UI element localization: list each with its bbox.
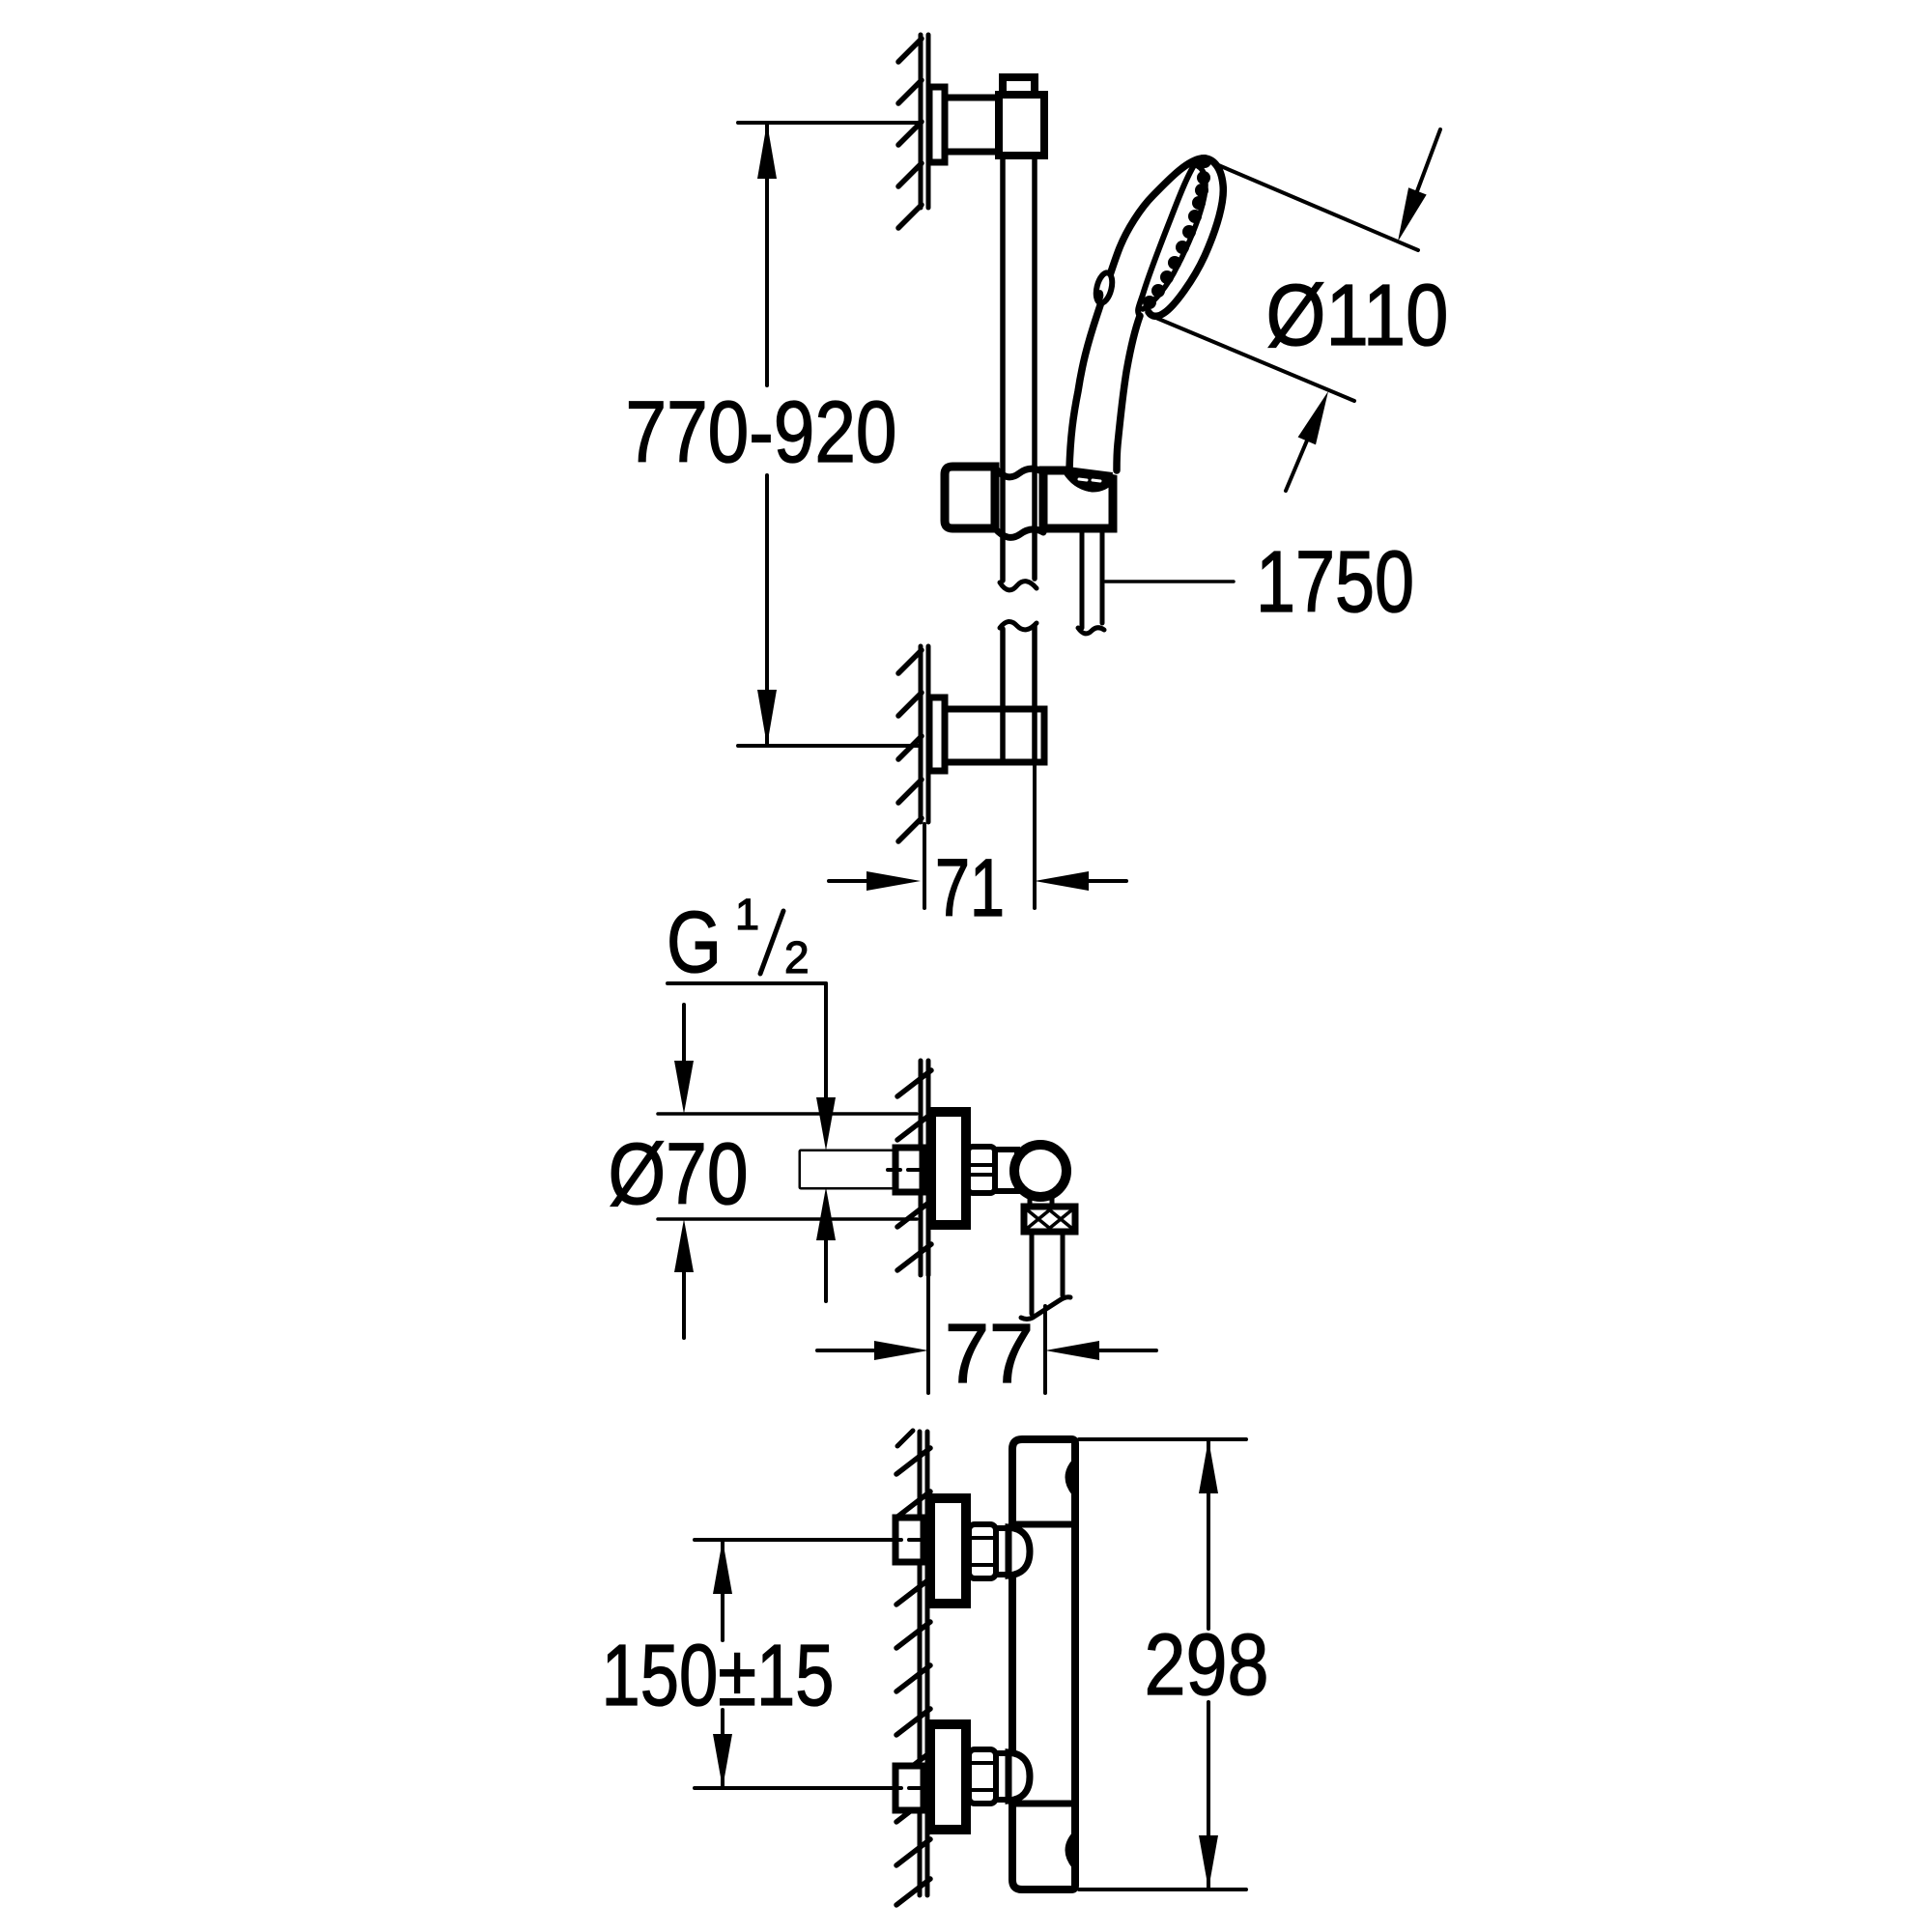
top bracket flange (929, 87, 945, 162)
holder right block (1043, 470, 1113, 528)
svg-text:Ø110: Ø110 (1266, 268, 1449, 364)
svg-text:1: 1 (735, 890, 759, 939)
dimension 298 extension lines (1079, 1439, 1246, 1889)
svg-text:Ø70: Ø70 (609, 1126, 749, 1223)
dimension 77 arrows (817, 1341, 1156, 1360)
hose coupling knurled nut (1024, 1207, 1075, 1232)
dimension 298 line with arrows (1199, 1439, 1218, 1889)
hex nut upper (front) (969, 1524, 996, 1578)
svg-text:1750: 1750 (1256, 534, 1414, 631)
dashed centerline lower inlet (889, 1786, 927, 1790)
washer lower (996, 1753, 1010, 1800)
wall middle hatching (897, 1070, 931, 1270)
union square nut upper (front) (895, 1518, 923, 1562)
thermostat body (1012, 1439, 1075, 1889)
svg-text:298: 298 (1145, 1617, 1269, 1714)
wall top (shower rail upper mount) (921, 35, 928, 208)
escutcheon (middle, side view) (931, 1112, 966, 1225)
top bracket arm (945, 98, 1002, 152)
rail top cap button (1003, 77, 1035, 95)
svg-text:150±15: 150±15 (602, 1628, 835, 1724)
dimension Ø70 arrows (674, 1005, 694, 1338)
dimension Ø110 upper arrow (1398, 129, 1440, 241)
wall middle (921, 1061, 928, 1275)
hand shower spray nozzles (dots) (1143, 155, 1211, 309)
dome cap upper (S-union) (1009, 1527, 1030, 1576)
dimension 770-920 bottom extension line (738, 744, 918, 748)
svg-text:770-920: 770-920 (626, 384, 897, 481)
knob neck (1030, 1196, 1052, 1207)
hose (middle) with break (1021, 1232, 1070, 1320)
dimension 77 extension lines (928, 1277, 1045, 1393)
G 1/2 arrow down to pipe (816, 1097, 836, 1151)
svg-text:2: 2 (784, 932, 810, 982)
dimension Ø110 lower tangent line (1151, 316, 1354, 401)
dimension 770-920 top extension line (738, 121, 918, 125)
holder wavy cut over rail (995, 468, 1043, 537)
dimension Ø110 upper tangent line (1209, 161, 1418, 250)
rail top cap (999, 95, 1044, 156)
dimension 150±15 extension lines (695, 1540, 895, 1788)
escutcheon lower (front) (930, 1724, 966, 1830)
label G 1/2 (667, 890, 810, 991)
dimension 71 extension lines (924, 763, 1035, 908)
union square nut lower (front) (895, 1766, 923, 1810)
supply pipe G1/2 (801, 1151, 896, 1187)
dimension 150±15 line with arrows (713, 1540, 732, 1788)
hex nut lower (front) (969, 1749, 996, 1804)
svg-text:71: 71 (935, 842, 1005, 933)
dimension 770-920 vertical line with arrows (757, 123, 777, 746)
dimension 71 arrows (829, 871, 1126, 891)
escutcheon upper (front) (930, 1498, 966, 1604)
wall bottom (897, 1431, 927, 1895)
wall top hatching (898, 39, 922, 228)
shower hose upper (1078, 532, 1104, 634)
holder left block (945, 467, 995, 528)
G 1/2 leader line (668, 983, 826, 1101)
wall lower hatching (898, 650, 922, 841)
svg-text:77: 77 (945, 1307, 1034, 1401)
dimension Ø110 lower arrow (1286, 391, 1328, 491)
dimension Ø70 extension lines (658, 1114, 917, 1219)
shower outlet ball knob (1014, 1145, 1066, 1197)
shower rail upper segment (1000, 156, 1037, 590)
hand shower head and handle (1069, 158, 1223, 470)
washer upper (996, 1528, 1010, 1575)
dashed centerline upper inlet (889, 1538, 927, 1542)
hand shower mode button (1094, 271, 1116, 306)
svg-text:G: G (667, 895, 722, 991)
wall lower (shower rail bottom mount) (921, 646, 928, 822)
G 1/2 arrow up to pipe (816, 1187, 836, 1301)
G 1/2 fraction slash (760, 911, 783, 974)
bottom bracket arm (945, 709, 1044, 762)
nut dashed centerline (888, 1168, 926, 1172)
wall bottom hatching (896, 1448, 930, 1905)
rail through bottom bracket (1003, 712, 1035, 759)
union square nut (middle) (895, 1148, 923, 1192)
dome cap lower (S-union) (1009, 1752, 1030, 1801)
leader line 1750 (1105, 580, 1234, 583)
bottom bracket flange (929, 697, 945, 771)
hex nut (middle, side view) (968, 1147, 995, 1193)
shower rail lower segment (1000, 621, 1037, 760)
holder handle-socket shadow (1067, 467, 1113, 492)
cylinder section (middle) (995, 1150, 1017, 1191)
